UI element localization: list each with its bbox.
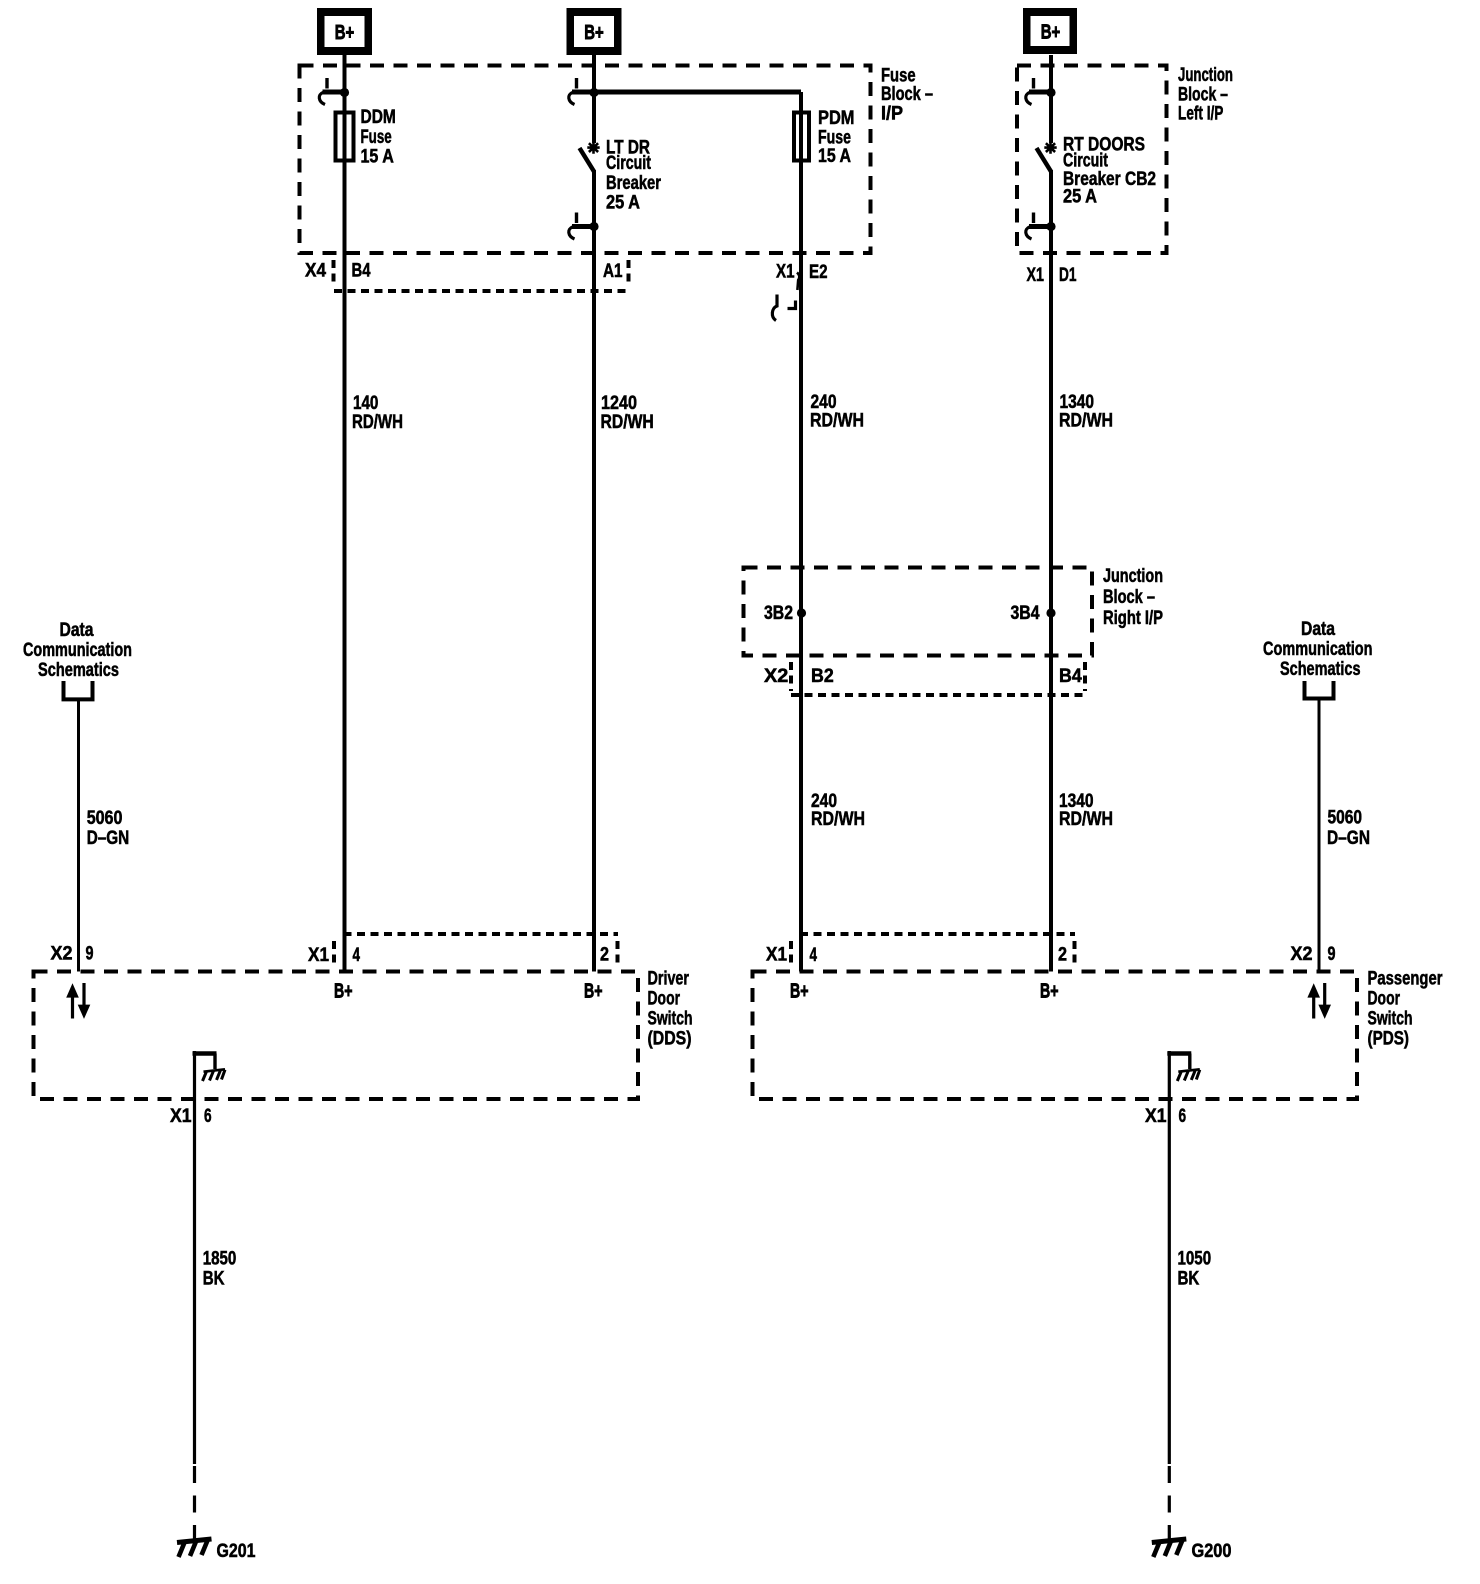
node 3B2 junction dot [764, 603, 806, 624]
svg-text:B2: B2 [811, 666, 834, 687]
wire label 5060 D-GN left [87, 808, 130, 849]
svg-text:G201: G201 [217, 1541, 256, 1562]
ground G200 symbol [1152, 1539, 1187, 1543]
fuse DDM 15A body [336, 113, 354, 161]
svg-text:Switch: Switch [1368, 1009, 1413, 1030]
wire jumper from circuit breaker node to PDM fuse [594, 90, 801, 95]
svg-text:Communication: Communication [1263, 639, 1373, 660]
svg-text:B4: B4 [352, 261, 371, 282]
fuse PDM 15A body [794, 113, 809, 161]
svg-text:6: 6 [1179, 1106, 1187, 1127]
circuit breaker LT DR label 25 A [606, 138, 661, 214]
svg-text:Schematics: Schematics [38, 660, 119, 681]
PDS connector strip dotted outline [791, 934, 1075, 966]
svg-text:RD/WH: RD/WH [1059, 411, 1113, 432]
terminal hook on wire 140 in fuse block [319, 78, 349, 105]
svg-text:Left I/P: Left I/P [1178, 104, 1224, 125]
svg-text:X1: X1 [1027, 265, 1045, 286]
fuse DDM value label [361, 107, 396, 168]
svg-text:Fuse: Fuse [361, 127, 392, 148]
svg-text:2: 2 [600, 945, 609, 966]
DDS data line arrows [71, 996, 74, 1019]
wire 5060 D-GN right [1318, 698, 1321, 972]
data communication schematics reference left [23, 620, 132, 681]
wire label 1850 BK [203, 1249, 237, 1290]
wire 1050 BK dashed segment [1168, 1466, 1171, 1539]
svg-text:4: 4 [810, 945, 818, 966]
PDS internal ground connection [1167, 1051, 1191, 1056]
circuit breaker CB2 RT DOORS blade [1037, 148, 1052, 172]
svg-text:Block –: Block – [1178, 85, 1228, 106]
svg-text:X1: X1 [308, 945, 329, 966]
wire label 1050 BK [1178, 1249, 1212, 1290]
svg-text:4: 4 [353, 945, 361, 966]
svg-text:Junction: Junction [1178, 65, 1233, 86]
data communication schematics reference right [1263, 619, 1373, 680]
svg-text:9: 9 [86, 944, 94, 965]
svg-text:140: 140 [353, 393, 378, 414]
svg-text:Breaker: Breaker [606, 173, 661, 194]
svg-text:RD/WH: RD/WH [601, 412, 654, 433]
svg-text:Right I/P: Right I/P [1103, 608, 1163, 629]
wire label 1340 RD/WH upper [1059, 392, 1113, 432]
junction block left I/P label [1178, 65, 1233, 125]
terminal hook junction of wire 1240 and feed to PDM fuse [569, 78, 599, 105]
wire 1240 RD/WH lower segment to DDS pin 2 [592, 170, 596, 972]
svg-text:D–GN: D–GN [1327, 828, 1370, 849]
svg-text:RD/WH: RD/WH [352, 412, 403, 433]
wire 240 RD/WH vertical through PDM fuse to PDS pin 4 [799, 92, 803, 972]
wire 1240 RD/WH upper segment from B+ [592, 55, 596, 143]
svg-text:RD/WH: RD/WH [810, 411, 864, 432]
svg-text:(DDS): (DDS) [648, 1029, 692, 1050]
svg-text:RD/WH: RD/WH [811, 809, 865, 830]
wire 1340 RD/WH lower segment to PDS pin 2 [1049, 170, 1053, 972]
svg-text:A1: A1 [603, 261, 623, 282]
wire label 240 RD/WH upper [810, 392, 864, 432]
svg-text:PDM: PDM [818, 108, 855, 129]
wire 1050 BK solid segment [1168, 1051, 1171, 1464]
wire 1850 BK solid segment [193, 1051, 196, 1464]
driver door switch DDS dashed enclosure [34, 972, 639, 1100]
svg-text:Circuit: Circuit [606, 153, 651, 174]
svg-text:B+: B+ [1040, 980, 1059, 1003]
circuit breaker LT DR thermal element asterisk [587, 141, 599, 153]
svg-text:B+: B+ [1041, 21, 1061, 44]
svg-text:25 A: 25 A [1063, 187, 1097, 208]
svg-text:Data: Data [1301, 619, 1335, 640]
svg-text:B+: B+ [584, 21, 604, 44]
battery feed B+ terminal 2 [567, 8, 622, 55]
svg-text:6: 6 [204, 1106, 212, 1127]
junction block right I/P dashed enclosure [744, 568, 1093, 656]
svg-text:X1: X1 [1145, 1106, 1167, 1127]
svg-text:1850: 1850 [203, 1249, 237, 1270]
wire 140 RD/WH vertical from B+ through DDM fuse to DDS pin 4 [343, 55, 347, 972]
svg-text:X1: X1 [776, 262, 795, 283]
svg-text:BK: BK [1178, 1269, 1200, 1290]
node 3B4 junction dot [1011, 603, 1056, 624]
svg-text:9: 9 [1328, 944, 1336, 965]
svg-text:X2: X2 [764, 666, 788, 687]
svg-text:X4: X4 [305, 261, 326, 282]
battery feed B+ terminal 1 [317, 8, 372, 55]
svg-text:DDM: DDM [361, 107, 396, 128]
svg-text:B+: B+ [584, 980, 603, 1003]
svg-text:B+: B+ [335, 21, 355, 44]
svg-text:Junction: Junction [1103, 566, 1163, 587]
svg-text:B+: B+ [334, 980, 353, 1003]
PDS data line arrows [1312, 996, 1315, 1019]
svg-text:Block –: Block – [1103, 587, 1155, 608]
svg-text:2: 2 [1058, 945, 1067, 966]
wire label 5060 D-GN right [1327, 808, 1370, 850]
svg-text:D–GN: D–GN [87, 828, 130, 849]
svg-text:X1: X1 [170, 1106, 192, 1127]
wire 1340 RD/WH upper segment from B+ [1049, 55, 1053, 143]
svg-text:25 A: 25 A [606, 193, 640, 214]
svg-text:I/P: I/P [881, 104, 903, 125]
off-page bracket left [64, 681, 93, 699]
junction block left I/P dashed enclosure [1017, 66, 1167, 254]
svg-text:Block –: Block – [881, 84, 933, 105]
svg-text:Door: Door [648, 989, 681, 1010]
fuse PDM value label [818, 108, 855, 167]
wire label 240 RD/WH lower [811, 791, 865, 830]
svg-text:X2: X2 [51, 944, 73, 965]
junction block right I/P label [1103, 566, 1163, 629]
svg-text:B4: B4 [1059, 666, 1082, 687]
svg-text:B+: B+ [790, 980, 809, 1003]
battery feed B+ terminal 3 [1023, 8, 1077, 54]
circuit breaker CB2 RT DOORS thermal element asterisk [1044, 141, 1056, 153]
svg-text:1050: 1050 [1178, 1249, 1212, 1270]
svg-text:Switch: Switch [648, 1009, 693, 1030]
svg-text:X2: X2 [1291, 944, 1313, 965]
wire label 140 RD/WH [352, 393, 403, 433]
svg-text:Communication: Communication [23, 640, 132, 661]
svg-text:RD/WH: RD/WH [1059, 809, 1113, 830]
svg-text:BK: BK [203, 1269, 225, 1290]
svg-text:15 A: 15 A [818, 146, 851, 167]
svg-text:3B4: 3B4 [1011, 603, 1040, 624]
off-page bracket right [1305, 681, 1334, 699]
terminal hook at bottom of LT DR circuit breaker [569, 213, 599, 240]
circuit breaker CB2 label 25 A [1063, 135, 1156, 208]
svg-text:5060: 5060 [1328, 808, 1363, 829]
svg-text:D1: D1 [1059, 265, 1077, 286]
svg-text:15 A: 15 A [361, 147, 395, 168]
fuse block I/P dashed enclosure [300, 66, 871, 254]
junction block right connector strip dotted outline [791, 662, 1085, 695]
svg-text:3B2: 3B2 [764, 603, 793, 624]
wire 1850 BK dashed segment [193, 1466, 196, 1539]
svg-text:G200: G200 [1192, 1541, 1232, 1562]
svg-text:X1: X1 [766, 945, 787, 966]
svg-text:Driver: Driver [648, 969, 690, 990]
ground G201 symbol [177, 1539, 212, 1543]
in-line connector on wire 240 [797, 273, 799, 291]
svg-text:E2: E2 [809, 262, 828, 283]
terminal hook on wire 1340 in junction block [1026, 78, 1056, 105]
circuit breaker LT DR blade [580, 148, 595, 172]
svg-text:5060: 5060 [87, 808, 123, 829]
terminal hook at bottom of RT DOORS circuit breaker [1026, 213, 1056, 240]
svg-text:(PDS): (PDS) [1368, 1029, 1410, 1050]
wire label 1240 RD/WH [601, 393, 654, 433]
passenger door switch PDS dashed enclosure [753, 972, 1358, 1100]
wire label 1340 RD/WH lower [1059, 791, 1113, 830]
svg-text:Schematics: Schematics [1280, 659, 1361, 680]
fuse block I/P label [881, 66, 933, 125]
driver door switch label [648, 969, 693, 1050]
DDS connector strip dotted outline [334, 934, 618, 966]
passenger door switch label [1368, 969, 1443, 1050]
fuse block connector strip dotted outline [334, 260, 629, 291]
DDS internal ground connection [193, 1051, 217, 1056]
wire 5060 D-GN left [77, 699, 80, 972]
svg-text:Passenger: Passenger [1368, 969, 1443, 990]
svg-text:Data: Data [60, 620, 94, 641]
svg-text:1240: 1240 [601, 393, 637, 414]
svg-text:Door: Door [1368, 989, 1401, 1010]
